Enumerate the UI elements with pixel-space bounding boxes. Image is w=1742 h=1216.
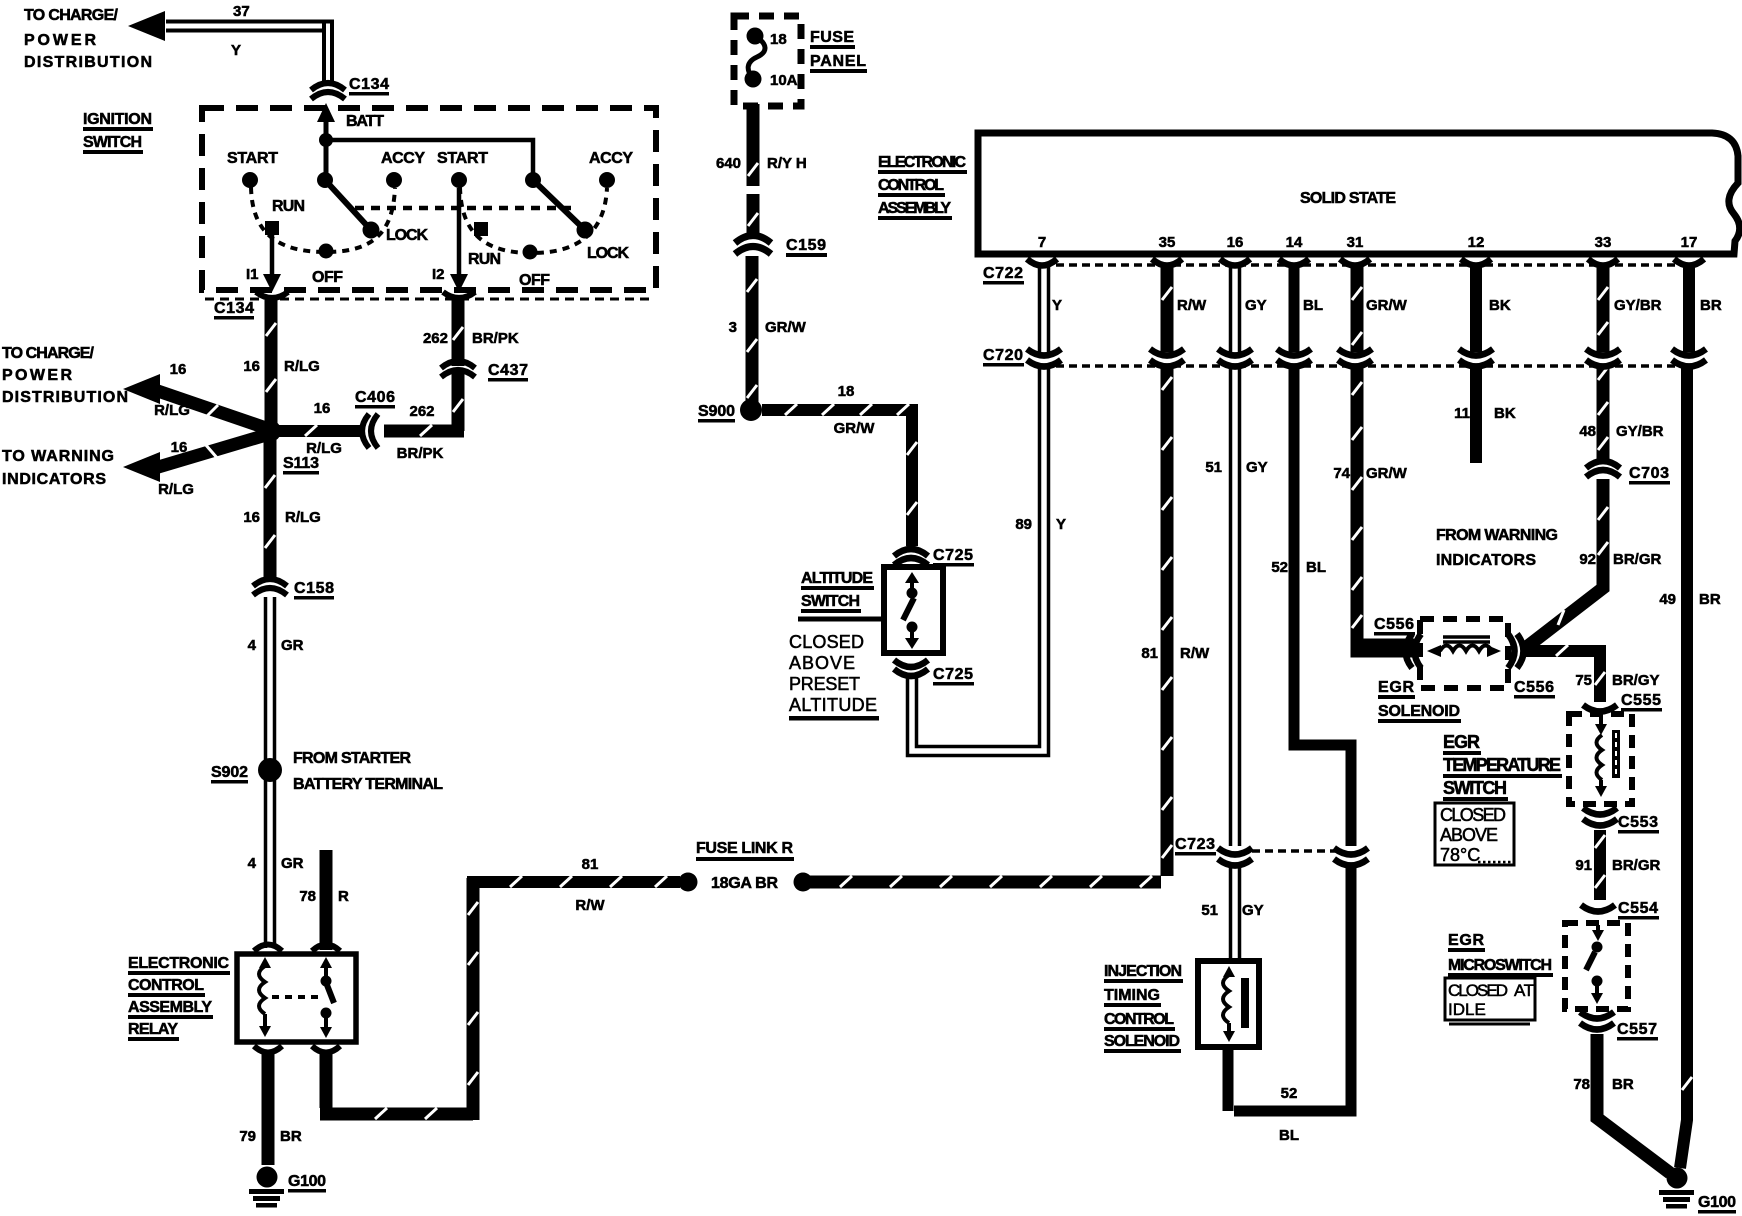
SECTION-RIGHT: [1040, 266, 1737, 1214]
EGR solenoid right connector: [1508, 634, 1524, 668]
wire RUN1 to I1: [270, 233, 275, 281]
label C557: [1617, 1021, 1658, 1041]
C723 connector glyph on BL wire: [1334, 848, 1368, 866]
svg-text:GY: GY: [1246, 459, 1268, 476]
svg-text:BR/GR: BR/GR: [1612, 857, 1661, 874]
svg-text:R/LG: R/LG: [154, 402, 190, 419]
node BATT 1: [317, 172, 333, 188]
svg-text:262: 262: [423, 330, 448, 347]
svg-text:ABOVE: ABOVE: [1440, 825, 1498, 845]
fuse link node (left dot): [679, 873, 698, 892]
svg-text:49: 49: [1659, 591, 1676, 608]
svg-text:48: 48: [1579, 423, 1596, 440]
label C553: [1618, 814, 1659, 834]
svg-text:EGR: EGR: [1378, 679, 1414, 696]
node LOCK 2: [577, 222, 594, 239]
node junction dot BATT: [319, 133, 333, 147]
svg-text:DISTRIBUTION: DISTRIBUTION: [24, 54, 152, 71]
svg-text:3: 3: [729, 319, 737, 336]
svg-text:C437: C437: [488, 362, 528, 379]
svg-text:S900: S900: [698, 403, 735, 420]
svg-text:18: 18: [838, 383, 855, 400]
svg-text:C555: C555: [1621, 692, 1661, 709]
node OFF 2: [523, 245, 538, 260]
svg-text:BR/PK: BR/PK: [397, 445, 444, 462]
ECA relay box: [237, 954, 356, 1042]
wire 4 GR (S902 to relay, double thin): [266, 780, 275, 948]
svg-text:TO CHARGE/: TO CHARGE/: [2, 345, 95, 362]
connector C723 label: [1175, 836, 1216, 856]
svg-text:C723: C723: [1175, 836, 1215, 853]
svg-text:GY: GY: [1242, 902, 1264, 919]
svg-text:35: 35: [1159, 234, 1176, 251]
svg-text:12: 12: [1468, 234, 1485, 251]
wire 52 BL solenoid bottom leg: [1223, 1044, 1234, 1111]
wire 81 R/W horizontal to fuse link: [467, 876, 680, 887]
wire pin31 GR/W hatched: [1352, 266, 1414, 651]
wire 262 BR/PK horizontal (corner to C406): [384, 425, 464, 438]
svg-text:78: 78: [1573, 1076, 1590, 1093]
svg-text:LOCK: LOCK: [587, 245, 629, 262]
svg-text:16: 16: [170, 361, 187, 378]
connector C406: [362, 414, 378, 448]
svg-text:G100: G100: [1698, 1194, 1736, 1211]
svg-text:GY/BR: GY/BR: [1616, 423, 1664, 440]
svg-text:81: 81: [582, 856, 599, 873]
svg-text:POWER: POWER: [2, 367, 72, 384]
label C134 bottom: [214, 300, 254, 320]
svg-text:16: 16: [1227, 234, 1244, 251]
svg-text:ACCY: ACCY: [589, 150, 633, 167]
svg-text:Y: Y: [1056, 516, 1066, 533]
svg-text:START: START: [437, 150, 488, 167]
svg-text:GR/W: GR/W: [1366, 297, 1408, 314]
wire 16 R/LG (S113 down to C158): [264, 440, 277, 578]
svg-text:SWITCH: SWITCH: [1443, 778, 1507, 798]
EGR microswitch dashed box: [1565, 923, 1628, 1009]
label: TO CHARGE/POWER DISTRIBUTION (top left): [24, 7, 152, 71]
svg-text:BR/GY: BR/GY: [1612, 672, 1660, 689]
svg-text:Y: Y: [231, 42, 241, 59]
svg-text:R/LG: R/LG: [158, 481, 194, 498]
svg-text:R/Y H: R/Y H: [767, 155, 807, 172]
relay coil: [259, 957, 271, 1037]
connector C554: [1581, 905, 1615, 912]
svg-text:78: 78: [299, 888, 316, 905]
connector C720 dashed line: [1056, 364, 1689, 368]
wire BATT into switch with up arrow: [317, 103, 335, 180]
svg-text:R/W: R/W: [1180, 645, 1210, 662]
wire loop altitude switch to pin 7 (double thin): [908, 372, 1049, 756]
wire BATT feed to section 2: [326, 140, 533, 180]
dashed detent arc 2: [460, 187, 607, 253]
wire START2 to I2: [457, 188, 462, 281]
svg-text:RUN: RUN: [272, 198, 305, 215]
wire pin16 GY (double thin): [1231, 266, 1240, 963]
C723 connector glyph on GY wire: [1218, 848, 1252, 866]
label C556 (right): [1514, 679, 1555, 699]
label FROM STARTER BATTERY TERMINAL: [293, 750, 443, 793]
label C725 bottom: [933, 666, 974, 686]
svg-text:INDICATORS: INDICATORS: [1436, 552, 1536, 569]
label EGR SOLENOID: [1378, 679, 1461, 723]
EGR microswitch contacts: [1586, 925, 1604, 1004]
svg-text:C134: C134: [214, 300, 254, 317]
wire 262 BR/PK (I2 down through C437 to corner): [452, 300, 465, 431]
svg-text:R/W: R/W: [1177, 297, 1207, 314]
relay bottom connectors: [254, 1046, 282, 1053]
label IGNITION SWITCH: [83, 111, 153, 154]
svg-text:C557: C557: [1617, 1021, 1657, 1038]
relay contact switch: [320, 957, 334, 1038]
svg-text:RUN: RUN: [468, 251, 501, 268]
altitude switch contacts: [903, 572, 919, 649]
connector C553: [1583, 808, 1617, 826]
label G100 right: [1698, 1194, 1736, 1214]
svg-text:BATTERY TERMINAL: BATTERY TERMINAL: [293, 776, 443, 793]
svg-text:CLOSED: CLOSED: [1440, 805, 1506, 825]
svg-text:R/LG: R/LG: [285, 509, 321, 526]
wire 78 R (to relay): [320, 850, 333, 950]
injection solenoid coil: [1223, 966, 1249, 1042]
node RUN 1: [265, 221, 279, 235]
label EGR MICROSWITCH: [1448, 932, 1553, 977]
EGR temperature switch dashed box: [1569, 714, 1632, 804]
svg-text:ABOVE: ABOVE: [789, 653, 855, 673]
svg-text:GR: GR: [281, 855, 304, 872]
node LOCK 1: [363, 222, 380, 239]
svg-text:ALTITUDE: ALTITUDE: [789, 695, 877, 715]
dashed detent arc 1: [251, 187, 395, 252]
svg-text:INJECTION: INJECTION: [1104, 963, 1182, 980]
wire pin33 GY/BR hatched: [1598, 266, 1608, 460]
svg-text:GY/BR: GY/BR: [1614, 297, 1662, 314]
label C159: [786, 237, 827, 257]
mechanical gang link (dashed): [355, 206, 571, 211]
svg-text:PANEL: PANEL: [810, 53, 866, 70]
svg-text:R/W: R/W: [575, 897, 605, 914]
svg-text:51: 51: [1205, 459, 1222, 476]
connector C134 (bottom, I2): [443, 292, 475, 298]
svg-text:TEMPERATURE: TEMPERATURE: [1443, 755, 1561, 775]
svg-text:BL: BL: [1279, 1127, 1299, 1144]
svg-text:C553: C553: [1618, 814, 1658, 831]
svg-text:GR/W: GR/W: [765, 319, 807, 336]
svg-text:C554: C554: [1618, 900, 1658, 917]
svg-text:BK: BK: [1489, 297, 1511, 314]
svg-text:GR/W: GR/W: [1366, 465, 1408, 482]
label EGR TEMPERATURE SWITCH: [1443, 732, 1562, 801]
svg-text:81: 81: [1141, 645, 1158, 662]
svg-text:51: 51: [1201, 902, 1218, 919]
svg-text:TIMING: TIMING: [1104, 987, 1160, 1004]
wire 79 BR (relay to ground): [262, 1052, 275, 1165]
label G100 left: [288, 1173, 326, 1193]
svg-text:ASSEMBLY: ASSEMBLY: [878, 200, 951, 217]
arrow wire 16 R/LG to charge/power distribution: [123, 374, 266, 428]
svg-text:262: 262: [409, 403, 434, 420]
svg-text:78°C: 78°C: [1440, 845, 1480, 865]
svg-text:640: 640: [716, 155, 741, 172]
svg-text:33: 33: [1595, 234, 1612, 251]
label C134 top: [349, 76, 389, 96]
wire 78 BR (C557 to ground): [1597, 1034, 1670, 1173]
wire pin35 R/W hatched: [808, 266, 1172, 887]
svg-text:I2: I2: [432, 266, 445, 283]
svg-text:BR: BR: [1612, 1076, 1634, 1093]
label C406: [355, 389, 395, 409]
svg-text:FROM STARTER: FROM STARTER: [293, 750, 411, 767]
fuse 18 10A: [745, 28, 766, 88]
label ELECTRONIC CONTROL ASSEMBLY: [878, 154, 967, 220]
svg-text:18: 18: [770, 31, 787, 48]
boxed note CLOSED AT IDLE: [1445, 978, 1535, 1024]
connector C725 (bottom): [894, 660, 928, 676]
svg-text:IDLE: IDLE: [1448, 1000, 1486, 1019]
svg-text:52: 52: [1281, 1085, 1298, 1102]
wire 3 GR/W (C159 to S900): [747, 256, 757, 402]
svg-text:FUSE LINK R: FUSE LINK R: [696, 840, 793, 857]
svg-text:SOLID STATE: SOLID STATE: [1300, 190, 1396, 207]
svg-text:79: 79: [239, 1128, 256, 1145]
connector C720 row label: [983, 347, 1024, 367]
svg-text:11: 11: [1454, 405, 1470, 422]
svg-text:CONTROL: CONTROL: [878, 177, 944, 194]
svg-text:18GA BR: 18GA BR: [711, 875, 778, 892]
svg-text:7: 7: [1038, 234, 1046, 251]
svg-text:G100: G100: [288, 1173, 326, 1190]
svg-text:BK: BK: [1494, 405, 1516, 422]
svg-text:ELECTRONIC: ELECTRONIC: [128, 955, 229, 972]
wire 37 Y to charge/power distribution (double line with arrow): [128, 11, 332, 84]
svg-text:16: 16: [314, 400, 331, 417]
svg-text:FROM WARNING: FROM WARNING: [1436, 527, 1558, 544]
relay internal dashed link: [272, 995, 320, 999]
splice node S900: [740, 399, 762, 421]
svg-text:I1: I1: [246, 266, 259, 283]
svg-text:C556: C556: [1514, 679, 1554, 696]
svg-text:BR: BR: [1700, 297, 1722, 314]
svg-text:INDICATORS: INDICATORS: [2, 471, 106, 488]
svg-text:EGR: EGR: [1448, 932, 1484, 949]
relay top connectors: [254, 945, 282, 952]
altitude switch box: [884, 567, 943, 653]
node OFF 1: [319, 244, 334, 259]
switch blade 1 BATT-LOCK: [325, 180, 371, 230]
svg-text:IGNITION: IGNITION: [83, 111, 152, 128]
svg-text:BR/PK: BR/PK: [472, 330, 519, 347]
svg-text:S902: S902: [211, 764, 248, 781]
svg-text:C159: C159: [786, 237, 826, 254]
injection timing control solenoid box: [1198, 961, 1259, 1047]
wire 4 GR (C158 to S902, double thin): [266, 597, 275, 760]
wire 16 R/LG horizontal (S113 to C406): [276, 425, 361, 437]
svg-text:16: 16: [171, 439, 188, 456]
label FUSE PANEL: [810, 29, 867, 73]
ignition switch box (dashed): [202, 108, 656, 290]
svg-text:ACCY: ACCY: [381, 150, 425, 167]
svg-text:75: 75: [1575, 672, 1592, 689]
svg-text:C556: C556: [1374, 616, 1414, 633]
SECTION-ECA: [808, 133, 1740, 1168]
svg-text:91: 91: [1575, 857, 1592, 874]
wire 75 BR/GY (EGR solenoid to C555): [1526, 645, 1605, 702]
svg-text:START: START: [227, 150, 278, 167]
svg-text:TO WARNING: TO WARNING: [2, 448, 114, 465]
svg-text:SOLENOID: SOLENOID: [1104, 1033, 1180, 1050]
svg-text:TO CHARGE/: TO CHARGE/: [24, 7, 119, 24]
svg-text:16: 16: [243, 358, 260, 375]
svg-text:PRESET: PRESET: [789, 674, 860, 694]
svg-text:DISTRIBUTION: DISTRIBUTION: [2, 389, 128, 406]
label C703: [1629, 465, 1670, 485]
ground G100 (left): [249, 1167, 284, 1208]
svg-text:OFF: OFF: [312, 269, 343, 286]
svg-text:74: 74: [1333, 465, 1350, 482]
svg-text:BR/GR: BR/GR: [1613, 551, 1662, 568]
boxed note CLOSED ABOVE 78C: [1435, 803, 1514, 865]
svg-text:4: 4: [248, 855, 257, 872]
connector C555: [1583, 705, 1617, 712]
C720 connector glyphs: [1027, 349, 1706, 367]
svg-text:CONTROL: CONTROL: [1104, 1011, 1174, 1028]
label C556 (left): [1374, 616, 1415, 636]
svg-text:C158: C158: [294, 580, 334, 597]
wire 18 GR/W (S900 to altitude switch): [762, 404, 918, 546]
connector C722 dashed line: [1056, 263, 1689, 267]
svg-text:ELECTRONIC: ELECTRONIC: [878, 154, 966, 171]
label C158: [294, 580, 334, 600]
connector C703: [1586, 461, 1620, 477]
svg-text:92: 92: [1579, 551, 1596, 568]
svg-text:R: R: [338, 888, 349, 905]
wire 640 R/Y H (fuse to C159): [748, 104, 758, 234]
svg-text:BL: BL: [1303, 297, 1323, 314]
svg-text:C722: C722: [983, 265, 1023, 282]
node BATT 2: [525, 172, 541, 188]
svg-text:SWITCH: SWITCH: [83, 134, 142, 151]
fuse link node (right dot): [794, 873, 813, 892]
svg-text:SOLENOID: SOLENOID: [1378, 703, 1460, 720]
fuse panel box (dashed): [734, 16, 801, 106]
svg-text:52: 52: [1271, 559, 1288, 576]
svg-text:89: 89: [1015, 516, 1032, 533]
svg-text:MICROSWITCH: MICROSWITCH: [1448, 957, 1552, 974]
svg-text:37: 37: [233, 3, 250, 20]
arrow wire 16 R/LG to warning indicators: [123, 435, 266, 482]
electronic control assembly box (torn right edge): [978, 133, 1740, 254]
EGR solenoid core and coil: [1427, 637, 1501, 657]
svg-text:C720: C720: [983, 347, 1023, 364]
wire 91 BR/GR (C553 to C554): [1595, 830, 1605, 900]
connector C134 (top): [311, 83, 345, 99]
connector C723 dashed line: [1252, 849, 1340, 853]
label: TO CHARGE/POWER DISTRIBUTION (middle left): [2, 345, 128, 406]
connector C725 (top): [894, 549, 928, 565]
wire 16 R/LG (C134 to S113): [265, 300, 278, 425]
svg-text:CLOSED: CLOSED: [1448, 981, 1508, 1000]
svg-text:AT: AT: [1514, 981, 1534, 1000]
connector C158: [253, 579, 287, 595]
label C555: [1621, 692, 1662, 712]
C722 connector bumps: [1027, 259, 1704, 266]
label INJECTION TIMING CONTROL SOLENOID: [1104, 963, 1183, 1053]
node START 1: [242, 172, 258, 188]
label C725 top: [933, 547, 974, 567]
svg-text:C703: C703: [1629, 465, 1669, 482]
svg-text:C134: C134: [349, 76, 389, 93]
label: TO WARNING INDICATORS: [2, 448, 114, 488]
label FUSE LINK R: [696, 840, 794, 861]
connector C134 (bottom, I1): [256, 292, 288, 298]
altitude switch pointer line: [798, 617, 884, 622]
svg-text:Y: Y: [1052, 297, 1062, 314]
svg-text:C725: C725: [933, 547, 973, 564]
svg-text:SWITCH: SWITCH: [801, 593, 860, 610]
node START 2: [451, 172, 467, 188]
wire pin12 BK (solid thick): [1470, 266, 1482, 463]
svg-text:R/LG: R/LG: [284, 358, 320, 375]
splice node S113: [259, 420, 281, 442]
connector C159: [735, 236, 771, 255]
label ALTITUDE SWITCH: [801, 570, 874, 613]
svg-text:17: 17: [1681, 234, 1698, 251]
svg-text:BL: BL: [1306, 559, 1326, 576]
svg-text:ALTITUDE: ALTITUDE: [801, 570, 873, 587]
svg-text:C406: C406: [355, 389, 395, 406]
svg-text:OFF: OFF: [519, 272, 550, 289]
label FROM WARNING INDICATORS: [1436, 527, 1558, 569]
svg-text:CONTROL: CONTROL: [128, 977, 204, 994]
svg-text:31: 31: [1347, 234, 1364, 251]
wire hatched (relay to fuse link run): [320, 878, 478, 1120]
svg-text:S113: S113: [283, 455, 319, 472]
svg-text:BR: BR: [280, 1128, 302, 1145]
EGR solenoid left connector: [1406, 634, 1422, 668]
svg-text:4: 4: [248, 637, 257, 654]
svg-text:CLOSED: CLOSED: [789, 632, 864, 652]
svg-text:BATT: BATT: [346, 113, 384, 130]
ground G100 (right): [1659, 1168, 1694, 1209]
svg-text:10A: 10A: [770, 72, 798, 89]
svg-text:16: 16: [243, 509, 260, 526]
SECTION-LEFT: [2, 3, 813, 1208]
svg-text:14: 14: [1286, 234, 1303, 251]
connector C557: [1580, 1012, 1614, 1030]
SECTION-MIDDLE: [698, 16, 1066, 756]
EGR temperature switch internals: [1595, 716, 1620, 797]
svg-text:GY: GY: [1245, 297, 1267, 314]
svg-text:GR: GR: [281, 637, 304, 654]
connector C437: [441, 361, 475, 377]
wire pin7 Y upper segment: [1040, 266, 1049, 372]
wire pin14 BL (solid thick): [1234, 266, 1351, 1111]
node ACCY 2: [599, 172, 615, 188]
label ELECTRONIC CONTROL ASSEMBLY RELAY: [128, 955, 230, 1041]
switch blade 2 BATT-LOCK: [533, 180, 585, 230]
label C437: [488, 362, 528, 382]
connector face line C134 (dash-dot): [205, 298, 655, 301]
svg-text:BR: BR: [1699, 591, 1721, 608]
EGR solenoid dashed box: [1420, 619, 1508, 688]
node RUN 2: [474, 222, 488, 236]
svg-text:RELAY: RELAY: [128, 1021, 178, 1038]
svg-text:EGR: EGR: [1443, 732, 1480, 752]
svg-text:FUSE: FUSE: [810, 29, 854, 46]
splice node S902: [258, 758, 282, 782]
wire 92 BR/GR (C703 to EGR solenoid): [1524, 479, 1608, 649]
label CLOSED ABOVE PRESET ALTITUDE: [789, 632, 879, 721]
